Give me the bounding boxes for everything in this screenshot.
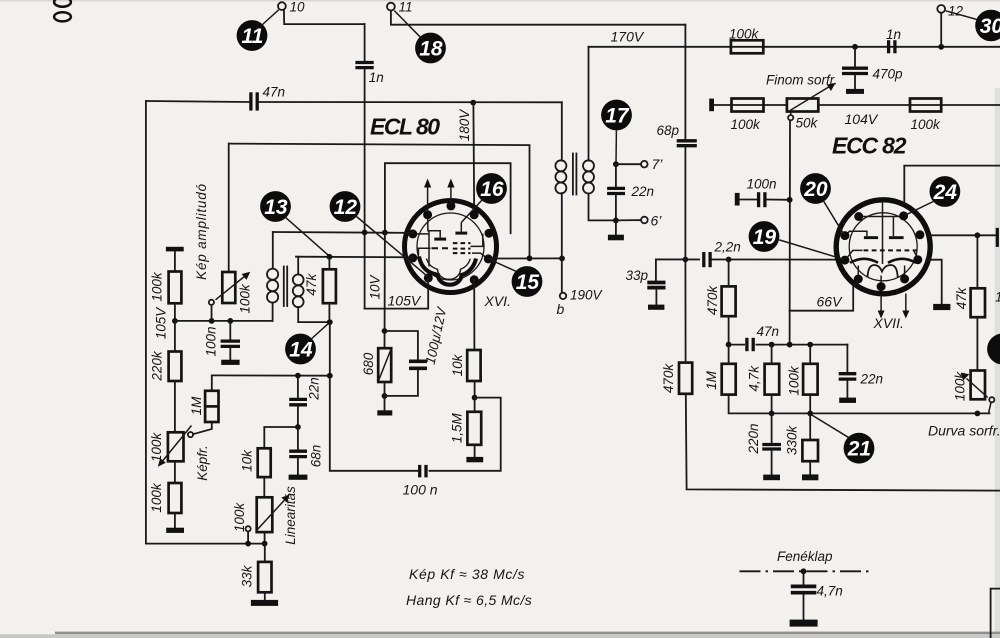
resistor 1M (sync) <box>205 391 218 422</box>
node 180V junction <box>470 100 476 106</box>
svg-text:33k: 33k <box>239 564 254 587</box>
svg-text:16: 16 <box>480 178 504 201</box>
callout circle 15 <box>512 266 543 297</box>
wiper terminal of Linearitas pot <box>246 526 251 531</box>
page top edge shading <box>0 0 1000 1</box>
svg-text:100k: 100k <box>232 502 247 533</box>
ECC82 internal top tie bar <box>882 201 884 217</box>
terminal 6' <box>641 217 648 224</box>
svg-text:30: 30 <box>980 15 1000 38</box>
ground under 22n sound <box>608 235 624 241</box>
node junctions on 1M line <box>295 373 301 379</box>
svg-text:11: 11 <box>241 25 263 48</box>
sound IF transformer core <box>572 154 574 195</box>
ground under 33k <box>251 600 278 606</box>
ECL80 internal triode grid dashes <box>432 247 449 249</box>
svg-text:Kép amplitudó: Kép amplitudó <box>194 183 209 280</box>
svg-text:100 n: 100 n <box>403 482 438 498</box>
node junction 47k bottom <box>327 319 333 325</box>
callout circle 18 <box>415 33 446 64</box>
svg-text:100k: 100k <box>786 365 801 396</box>
wiper terminal of Kepfr pot <box>188 432 193 437</box>
svg-text:ECL 80: ECL 80 <box>370 114 440 140</box>
capacitor 22n (ECC) hang <box>846 345 848 372</box>
edge terminal bar <box>996 228 999 247</box>
capacitor 68n <box>289 450 307 453</box>
svg-text:10k: 10k <box>239 449 254 472</box>
node junction on chassis line <box>801 568 807 574</box>
wire junction to terminal 6' <box>616 219 641 221</box>
callout circle 16 <box>476 173 507 204</box>
resistor 1,5M <box>467 412 481 445</box>
stub terminal (100n ECC row) <box>735 193 740 206</box>
svg-text:22n: 22n <box>860 372 884 387</box>
ground under 4,7n <box>790 620 818 627</box>
wire junction to terminal 7' <box>616 163 641 165</box>
capacitor 22n (sound) <box>615 164 617 186</box>
callout circle 30 <box>975 10 1000 42</box>
svg-text:20: 20 <box>803 178 828 201</box>
svg-text:XVI.: XVI. <box>484 293 511 309</box>
tube ECC82 envelope <box>836 200 930 294</box>
svg-text:Durva sorfr.: Durva sorfr. <box>928 423 1000 439</box>
wire grid line y=232.4 <box>273 231 413 234</box>
capacitor 1n (top left) <box>355 61 373 64</box>
pointer line 21 to divider junction <box>811 415 848 438</box>
ECL80 internal triode anode <box>434 238 446 241</box>
wire right coil bottom to 6' junction <box>589 193 616 220</box>
wiper terminal of Kep amplitudo pot <box>209 300 214 305</box>
wiper terminal of 50k pot <box>790 112 792 116</box>
capacitor 100n (ECL80 bottom) <box>418 465 421 478</box>
pointer line 17 down to secondary top <box>615 131 617 165</box>
svg-text:190V: 190V <box>570 288 604 303</box>
svg-text:Kép Kf ≈ 38 Mc/s: Kép Kf ≈ 38 Mc/s <box>409 566 525 582</box>
pointer line 12 to triode cathode pin <box>357 217 429 277</box>
capacitor 47n (left) <box>249 92 252 110</box>
svg-text:104V: 104V <box>845 111 879 127</box>
svg-text:22n: 22n <box>631 184 655 199</box>
ECL80 pin dots <box>408 201 493 284</box>
sound IF transformer right coil <box>583 160 594 193</box>
svg-text:68n: 68n <box>308 445 323 468</box>
callout circle 21 <box>844 433 875 464</box>
svg-text:100k: 100k <box>149 271 164 302</box>
node junction 2,2n / 470k <box>726 257 732 263</box>
potentiometer 50k Finom sorfr. <box>787 99 818 112</box>
pointer line 30 to terminal 12 <box>946 11 977 20</box>
page right edge shading <box>995 88 1000 634</box>
pointer line 20 to anode pin <box>824 202 844 235</box>
capacitor 22n (sync chain) <box>297 376 299 398</box>
ground under 330k <box>802 474 818 480</box>
wire 50k row y=105 <box>714 104 787 106</box>
svg-text:7’: 7’ <box>652 156 664 172</box>
svg-text:105V: 105V <box>154 306 169 340</box>
wire 680 bottom to ground <box>384 382 386 410</box>
sound IF transformer left coil <box>555 160 566 193</box>
ECC82 internal anode right <box>889 236 904 239</box>
svg-text:14: 14 <box>289 339 313 362</box>
wire from corner down to pot top <box>228 144 230 272</box>
page bottom edge band <box>55 632 1000 635</box>
resistor 100k (top of left chain) with supply bar <box>166 247 184 252</box>
wire right coil bottom to 47k bottom junction <box>298 307 330 322</box>
svg-text:33p: 33p <box>626 268 649 283</box>
terminal 11 <box>387 3 395 11</box>
svg-text:680: 680 <box>361 352 376 375</box>
wire 105V rail y=320.9 <box>175 320 273 322</box>
wire left coil top to grid wire corner <box>272 232 274 269</box>
ground under 680 <box>377 410 392 415</box>
ground under 470p <box>846 89 864 94</box>
svg-text:180V: 180V <box>457 108 472 142</box>
wire 47n row y=344.6 <box>729 344 848 346</box>
tube ECL80 envelope <box>405 201 497 293</box>
ground under 100k <box>166 528 184 533</box>
wire horizontal 47n line y=102.3 <box>146 101 249 102</box>
wire 170V line y=46.8 <box>589 46 1000 48</box>
resistor 470k (to boost line) <box>679 363 692 394</box>
resistor 100k (170V feed) <box>731 40 763 53</box>
wire 1M top line y=375.4 <box>212 374 330 376</box>
ECL80 internal grid dashes pentode <box>453 242 471 244</box>
ECL80 tube <box>405 179 497 293</box>
potentiometer 100k Linearitas <box>257 497 273 532</box>
wire left rail x=145.9 <box>145 101 147 544</box>
svg-text:1n: 1n <box>886 27 901 42</box>
svg-text:10: 10 <box>290 0 306 15</box>
edge callout circle fragment <box>987 334 1000 365</box>
ECC82 internal heater <box>868 265 898 278</box>
svg-text:50k: 50k <box>796 116 819 131</box>
stub terminal (50k row) <box>709 99 714 112</box>
wire right coil top to cathode wire <box>297 257 299 275</box>
svg-text:6’: 6’ <box>651 213 663 229</box>
svg-text:17: 17 <box>605 105 630 128</box>
blocking transformer right coil <box>293 274 304 307</box>
svg-text:220k: 220k <box>149 350 164 382</box>
potentiometer 100k Durva sorfr. <box>971 371 985 400</box>
node junction 22n bottom <box>295 424 301 430</box>
screen-grid box around ECL80 top <box>385 163 511 233</box>
wire right coil top up to 170V line <box>588 47 590 161</box>
svg-text:1n: 1n <box>369 70 384 85</box>
svg-text:XVII.: XVII. <box>873 315 904 331</box>
ground under 22n ECC <box>839 398 856 403</box>
svg-text:Finom sorfr.: Finom sorfr. <box>766 73 838 88</box>
potentiometer 100k Kep amplitudo <box>222 272 235 303</box>
svg-text:330k: 330k <box>785 425 800 456</box>
terminal 190V b <box>560 293 566 299</box>
ECC82 pin dots <box>840 211 924 291</box>
ECL80 internal triode side line <box>428 231 430 267</box>
svg-text:100k: 100k <box>729 27 760 42</box>
terminal 10 <box>278 2 286 10</box>
node junction terminal 12 <box>938 44 944 50</box>
svg-text:4,7k: 4,7k <box>747 365 762 392</box>
wire pentode cathode down x=474.2 <box>473 280 475 350</box>
resistor 220k <box>169 352 182 382</box>
node junctions bottom rail <box>245 541 251 547</box>
wire ECC82 right cathode to ground <box>926 260 941 304</box>
svg-text:1,5M: 1,5M <box>449 413 464 444</box>
wire 50k wiper down to 47n line <box>789 120 791 344</box>
svg-text:1M: 1M <box>704 370 719 390</box>
resistor 470k (grid leak upper) <box>722 286 736 316</box>
node junctions on 258 wire <box>527 255 533 261</box>
ECL80 heater arrow left <box>427 186 429 212</box>
terminal 12 <box>937 5 945 13</box>
wire 10k junction right-down loop to 100n <box>430 398 501 471</box>
svg-text:b: b <box>557 301 565 317</box>
ECC82 internal grid dashes <box>864 249 917 251</box>
node junction secondary top <box>613 161 619 167</box>
ground under 1,5M <box>466 457 483 462</box>
measurement callout box 10V / 105V <box>365 279 429 309</box>
ground under 33p <box>648 305 664 310</box>
node junction x=384.9 on grid wire <box>382 230 388 236</box>
svg-text:47n: 47n <box>263 85 286 100</box>
svg-text:18: 18 <box>419 38 443 61</box>
callout circle 20 <box>800 173 831 204</box>
pointer line 18 to terminal 11 <box>394 11 420 37</box>
callout circle 24 <box>930 176 961 207</box>
capacitor 220n <box>771 413 773 442</box>
capacitor 33p <box>656 259 839 280</box>
svg-text:100μ/12V: 100μ/12V <box>423 304 450 366</box>
node junction 68p bottom <box>683 257 689 263</box>
svg-text:100n: 100n <box>204 326 219 356</box>
ECC82 heater arrow right <box>905 294 907 312</box>
svg-text:12: 12 <box>948 4 964 19</box>
svg-text:11: 11 <box>399 0 413 15</box>
resistor 47k (ECC) <box>971 288 985 317</box>
svg-text:10: 10 <box>995 290 1000 305</box>
pointer line 15 to pentode cathode pin <box>490 259 516 271</box>
svg-text:ECC 82: ECC 82 <box>832 133 907 159</box>
wire x=384.9 down to 680 resistor <box>384 233 386 349</box>
svg-text:170V: 170V <box>611 29 645 45</box>
wire 50k row right <box>818 104 1000 106</box>
pointer line 19 to grid pin <box>779 240 843 259</box>
wiper terminal of Durva pot <box>989 397 994 402</box>
blocking transformer left coil <box>267 269 278 303</box>
svg-text:470p: 470p <box>873 67 904 82</box>
callout circle 12 <box>330 191 361 222</box>
capacitor 100u/12V electrolytic <box>385 331 418 360</box>
svg-text:Hang Kf ≈ 6,5 Mc/s: Hang Kf ≈ 6,5 Mc/s <box>406 592 532 608</box>
svg-text:10V: 10V <box>367 273 382 299</box>
ECC82 internal anode left <box>864 236 878 239</box>
svg-text:66V: 66V <box>817 294 844 310</box>
node junctions on bottom rail <box>769 411 775 417</box>
svg-text:24: 24 <box>933 181 958 204</box>
resistor 330k <box>802 440 818 461</box>
capacitor 4,7n <box>803 571 805 584</box>
callout circle 14 <box>285 334 316 365</box>
svg-text:1M: 1M <box>189 396 204 416</box>
svg-text:15: 15 <box>516 271 540 294</box>
node junctions on 105V rail <box>209 318 215 324</box>
node junction x=364.6 on grid wire <box>362 230 368 236</box>
svg-text:100k: 100k <box>237 283 252 314</box>
ground under 100n <box>221 360 239 365</box>
callout circle 19 <box>749 221 780 252</box>
ground under 220n <box>763 475 780 481</box>
svg-text:470k: 470k <box>705 285 720 316</box>
ECC82 heater arrow left <box>880 295 882 312</box>
wire 68p vertical from top line down <box>684 25 686 139</box>
svg-text:13: 13 <box>264 196 288 219</box>
wire bottom rail y=543.6 <box>146 543 265 545</box>
svg-text:Képfr.: Képfr. <box>195 445 210 481</box>
capacitor 47n (ECC) <box>745 338 756 353</box>
node 680 bottom junction <box>382 393 388 399</box>
resistor 33k <box>258 562 271 592</box>
node 10k bottom junction <box>472 395 478 401</box>
capacitor 470p <box>854 47 856 67</box>
svg-text:Linearitás: Linearitás <box>283 486 298 545</box>
wire sound transformer primary left leg <box>561 102 563 160</box>
svg-text:470k: 470k <box>661 363 676 394</box>
wire ECC82 top to right edge <box>904 166 1000 202</box>
svg-text:105V: 105V <box>388 293 422 309</box>
resistor 680 <box>378 348 391 382</box>
svg-text:10k: 10k <box>450 353 465 376</box>
svg-text:220n: 220n <box>746 423 761 454</box>
svg-text:47k: 47k <box>954 286 969 309</box>
resistor 100k (104V) <box>910 99 941 112</box>
wire left coil bottom down to 105V rail <box>272 303 274 321</box>
capacitor 68p <box>677 139 697 142</box>
capacitor 1n (to terminal 12) <box>887 40 890 53</box>
svg-text:100k: 100k <box>149 482 164 513</box>
node junction 47k top <box>975 232 981 238</box>
pointer line 13 to 47k junction <box>286 218 329 256</box>
wire vertical x=364.6 from 1n down through grid wire to callout box <box>364 24 366 61</box>
resistor 100k (sorfr) <box>732 99 764 112</box>
wire cathode line y=257 <box>296 256 413 259</box>
node 680 top junction <box>382 328 388 334</box>
svg-text:2,2n: 2,2n <box>714 240 741 255</box>
node junction 100n <box>787 197 793 203</box>
ECL80 internal pentode anode <box>455 232 467 235</box>
svg-text:4,7n: 4,7n <box>817 584 843 599</box>
blocking transformer core <box>283 267 285 307</box>
wire 470k bottom long line to right edge <box>686 394 1000 491</box>
node 47k top junction <box>327 254 333 260</box>
svg-text:Fenéklap: Fenéklap <box>777 549 833 564</box>
measurement callout 66V <box>790 280 858 310</box>
ECC82 tube <box>836 200 930 319</box>
svg-text:68p: 68p <box>657 123 680 138</box>
svg-text:100k: 100k <box>731 117 762 132</box>
capacitor 2,2n <box>700 252 712 267</box>
svg-text:47k: 47k <box>304 273 319 296</box>
ECC82 internal cathode arcs <box>850 259 878 263</box>
wire ECC82 right anode to edge terminal <box>928 234 996 236</box>
resistor 10k (linearity) <box>258 448 271 477</box>
wire 100n left to corner x=329.8 <box>330 322 418 471</box>
pointer line 11 to terminal 10 <box>263 10 279 25</box>
svg-text:22n: 22n <box>307 377 322 401</box>
ECL80 internal grid link to right pins <box>471 234 483 247</box>
ground under 68n <box>289 475 308 480</box>
ECL80 heater arrow right <box>450 186 452 204</box>
node junction 470p <box>852 44 858 50</box>
resistor 4,7k <box>765 364 780 395</box>
resistor 47k (blocking osc) <box>323 269 336 303</box>
pointer line 16 to pentode anode <box>461 200 481 222</box>
ground right of ECC82 <box>933 304 950 310</box>
ECL80 cathode <box>419 257 476 285</box>
wire from terminal 11 down then right to x=685 <box>391 11 686 25</box>
corner lines bottom right <box>991 589 1000 638</box>
node junction 6' <box>613 218 619 224</box>
node junctions on 47n row <box>726 342 732 348</box>
svg-text:47n: 47n <box>757 324 780 339</box>
callout circle 11 <box>237 20 268 51</box>
callout circle 17 <box>601 100 632 131</box>
svg-text:21: 21 <box>847 438 871 461</box>
pointer line 24 to top pin <box>905 202 933 216</box>
node 105V junction <box>172 318 178 324</box>
capacitor 100n (ECC osc) <box>740 199 757 201</box>
resistor 10k (ECL80 cathode) <box>467 350 480 381</box>
svg-text:100k: 100k <box>952 371 967 402</box>
wire anode line y=144 from Kep-amplitudo pot to corner x=529.5 <box>229 144 530 259</box>
resistor 100k (ECC divider) <box>803 364 818 395</box>
terminal 7' <box>641 161 648 168</box>
svg-text:19: 19 <box>753 226 777 249</box>
wire 1M bottom to wiper <box>193 422 212 434</box>
registration mark 00 top-left <box>54 0 71 21</box>
svg-text:100k: 100k <box>149 432 164 463</box>
svg-text:100n: 100n <box>747 177 777 192</box>
pointer line 14 to junction <box>312 323 329 338</box>
svg-text:100k: 100k <box>911 117 942 132</box>
wire 180V down to tube <box>472 103 475 214</box>
wire 22n junction to 10k <box>264 427 298 448</box>
svg-text:12: 12 <box>334 196 358 219</box>
capacitor 100n (105V rail) <box>229 321 231 340</box>
resistor 1M (ECC) <box>722 364 736 395</box>
wire pentode anode y=258.3 to 190V <box>488 257 562 259</box>
wire from terminal 10 down and right to 1n cap <box>284 10 365 24</box>
potentiometer 100k Kepfr. <box>168 432 184 461</box>
callout circle 13 <box>260 191 291 222</box>
resistor 100k (below Kepfr pot) <box>169 483 182 513</box>
